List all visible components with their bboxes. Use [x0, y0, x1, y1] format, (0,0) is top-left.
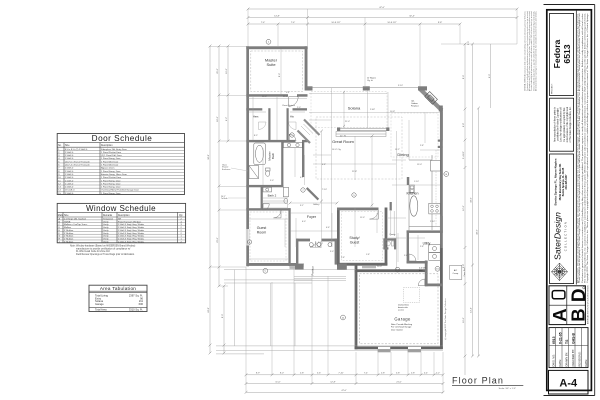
AIBD logo box	[549, 286, 585, 325]
wall utility top	[407, 230, 443, 233]
svg-text:1: 1	[181, 236, 183, 238]
svg-text:For Overhead Garage: For Overhead Garage	[391, 326, 412, 329]
door schedule rows text	[58, 148, 139, 195]
svg-text:Comp.: Comp.	[453, 273, 459, 275]
ac comp pad	[450, 265, 462, 279]
svg-text:10'-8": 10'-8"	[390, 111, 395, 113]
wall hall east	[302, 142, 304, 177]
svg-text:2'-8 Sngl. Dbl. Sashed: 2'-8 Sngl. Dbl. Sashed	[64, 218, 86, 220]
window right wall lower	[440, 216, 442, 231]
front porch lines	[216, 270, 443, 354]
pantry shelves	[391, 211, 394, 236]
svg-text:4'-2": 4'-2"	[300, 177, 304, 179]
svg-text:B: B	[59, 221, 61, 223]
svg-text:Total Area: Total Area	[95, 308, 107, 312]
svg-text:2'-8x8'-0: 2'-8x8'-0	[65, 168, 74, 170]
door tags circles	[247, 39, 448, 320]
svg-text:Bath 2: Bath 2	[268, 193, 277, 197]
svg-text:3'-1": 3'-1"	[300, 205, 304, 207]
sater address rotated text	[554, 158, 569, 205]
extension lines left	[210, 46, 247, 286]
svg-text:2'-8x8'-0: 2'-8x8'-0	[65, 177, 74, 179]
svg-text:A-4: A-4	[559, 378, 578, 390]
great room media niche	[336, 132, 386, 137]
svg-text:4'-6": 4'-6"	[326, 227, 330, 229]
svg-text:9'-0": 9'-0"	[489, 74, 491, 79]
wall closets top	[246, 108, 262, 110]
garage door openings	[378, 347, 421, 350]
wall nook divider	[390, 202, 392, 211]
svg-text:20'-0": 20'-0"	[217, 68, 219, 74]
svg-text:(2) 2'-4 x 8'-0 w/ Transom: (2) 2'-4 x 8'-0 w/ Transom	[65, 164, 90, 167]
svg-text:2'-8": 2'-8"	[341, 257, 345, 259]
svg-text:Area Tabulation: Area Tabulation	[100, 286, 136, 291]
portico columns	[295, 264, 304, 270]
svg-text:Law. Any design modifications: Law. Any design modifications will	[560, 107, 563, 142]
svg-text:6'-0": 6'-0"	[302, 221, 306, 223]
svg-text:2' Mullion: 2' Mullion	[64, 236, 74, 238]
svg-text:5'-8": 5'-8"	[463, 264, 465, 269]
wall solana column west	[308, 86, 313, 90]
svg-text:10'-8 1/2": 10'-8 1/2"	[387, 22, 396, 24]
svg-text:9'-2": 9'-2"	[226, 117, 228, 122]
svg-text:2: 2	[181, 227, 183, 229]
arc bath2 door	[263, 204, 270, 211]
svg-text:No.: No.	[58, 145, 62, 147]
svg-text:2'-8x8'-0: 2'-8x8'-0	[65, 158, 74, 160]
svg-text:2'-8x6'-3 Sngl. Hng. Wndw.: 2'-8x6'-3 Sngl. Hng. Wndw.	[118, 227, 145, 229]
garage door sill right	[408, 350, 422, 353]
note ceiling slope	[367, 78, 376, 82]
svg-text:Pantry: Pantry	[390, 233, 396, 236]
svg-text:8'-6": 8'-6"	[279, 73, 281, 78]
AIBD registered mark	[583, 287, 585, 289]
svg-text:Suite: Suite	[266, 62, 276, 67]
svg-text:2: 2	[181, 233, 183, 235]
svg-text:1 Panel Swng. Door: 1 Panel Swng. Door	[101, 192, 121, 195]
svg-text:2'-10": 2'-10"	[430, 221, 435, 223]
svg-text:8'-5": 8'-5"	[254, 135, 258, 137]
master vanity	[283, 142, 302, 147]
svg-text:Window Schedule: Window Schedule	[86, 204, 156, 213]
ceiling dashed master	[251, 51, 303, 92]
copyright note rotated text	[554, 106, 573, 142]
svg-text:1 Panel Swng. Door: 1 Panel Swng. Door	[101, 170, 121, 173]
wall mbath bottom	[246, 185, 283, 187]
door arcs	[263, 97, 425, 286]
svg-text:7'-4": 7'-4"	[364, 373, 368, 375]
svg-text:Fixed Transom Window: Fixed Transom Window	[118, 220, 141, 223]
svg-text:606: 606	[139, 302, 144, 306]
svg-text:Qty: Qty	[179, 214, 183, 217]
svg-text:All window and door openings t: All window and door openings to receive …	[535, 11, 538, 91]
dimension text right (rotated)	[463, 74, 491, 323]
svg-text:2'-8x8'-0: 2'-8x8'-0	[65, 174, 74, 176]
svg-text:Verify: Verify	[103, 235, 109, 238]
svg-text:2'-8x8'-0: 2'-8x8'-0	[65, 193, 74, 195]
svg-text:1: 1	[181, 239, 183, 241]
svg-text:5'-0": 5'-0"	[270, 180, 274, 182]
extra tick marks interior	[289, 91, 374, 246]
svg-text:Garage: Garage	[394, 317, 411, 322]
svg-text:Mullion x 3 w/Top Trans.: Mullion x 3 w/Top Trans.	[64, 223, 88, 226]
arc study door	[370, 210, 379, 219]
svg-text:DRAWN BY:: DRAWN BY:	[565, 352, 569, 367]
svg-text:Garage: Garage	[95, 302, 104, 306]
wall guest top	[246, 208, 290, 210]
ceiling dashed guest	[250, 212, 286, 261]
svg-text:Foyer: Foyer	[307, 215, 317, 219]
svg-text:Enclosure: Enclosure	[222, 168, 230, 171]
svg-text:20'-0": 20'-0"	[377, 266, 382, 268]
svg-text:Clg. ht.: Clg. ht.	[367, 79, 373, 82]
svg-text:(c) copyright 2005 The Sater D: (c) copyright 2005 The Sater Design Coll…	[444, 299, 447, 340]
svg-text:12'-8": 12'-8"	[330, 381, 336, 383]
sheet number box	[549, 370, 589, 394]
svg-text:44'-0": 44'-0"	[477, 229, 479, 235]
wall foyer front right	[322, 239, 338, 242]
svg-text:32'-4": 32'-4"	[409, 15, 415, 17]
svg-text:2'-8x8'-0: 2'-8x8'-0	[65, 155, 74, 157]
interior dim chains	[248, 49, 440, 269]
svg-text:10'-0": 10'-0"	[226, 68, 228, 74]
niche hatch marks	[298, 120, 320, 144]
door schedule header text	[58, 144, 113, 147]
svg-text:Note: Provide Blocking: Note: Provide Blocking	[391, 323, 413, 326]
svg-text:2'-8x4'-3 Sngl. Hng. Wndw.: 2'-8x4'-3 Sngl. Hng. Wndw.	[118, 233, 145, 235]
master tub	[254, 143, 265, 165]
dimension text top	[261, 7, 443, 24]
svg-text:Field Review Openings w/ T: Field Review Openings w/ Truss Dwgs prio…	[76, 253, 135, 256]
svg-text:3'-0": 3'-0"	[330, 251, 334, 253]
ceiling dashed great room	[316, 117, 402, 179]
svg-text:E: E	[59, 230, 61, 232]
svg-text:6513: 6513	[552, 336, 556, 344]
copyright note box	[550, 98, 574, 151]
svg-text:Gallery: Gallery	[313, 204, 319, 206]
wall guest right	[288, 208, 290, 266]
window schedule note	[70, 245, 135, 256]
portico steps	[294, 276, 346, 280]
svg-text:1'-10": 1'-10"	[414, 181, 419, 183]
area tabulation table frame	[89, 285, 147, 311]
svg-text:be appropriately accepted by t: be appropriately accepted by this	[563, 107, 566, 142]
svg-text:5'-4": 5'-4"	[286, 92, 290, 94]
wall left exterior	[246, 46, 249, 266]
svg-text:16'-0x8'-0: 16'-0x8'-0	[65, 190, 75, 192]
svg-text:Purchaser is granted a limited: Purchaser is granted a limited license t…	[581, 12, 584, 283]
svg-text:6-21-05: 6-21-05	[559, 332, 563, 344]
svg-text:SH: SH	[118, 218, 121, 220]
wall mbath top	[246, 140, 295, 142]
svg-text:His: His	[290, 115, 294, 119]
svg-text:Guest: Guest	[350, 240, 360, 244]
wall bath2 east	[261, 187, 263, 210]
wall foyer jamb right	[335, 239, 337, 265]
margin leader lines	[228, 168, 248, 198]
svg-text:14'-8": 14'-8"	[274, 15, 280, 17]
master wc	[266, 168, 271, 176]
svg-text:noted erasure of the copyright: noted erasure of the copyright seal	[566, 106, 569, 142]
svg-text:2'-8x3'-3 Sngl. Hng. Wndw.: 2'-8x3'-3 Sngl. Hng. Wndw.	[118, 239, 145, 241]
arc utility door	[409, 254, 416, 261]
svg-text:Tempered: Tempered	[103, 217, 114, 220]
svg-text:1 Panel Swng. Door: 1 Panel Swng. Door	[101, 157, 121, 160]
svg-text:Verify: Verify	[103, 240, 109, 243]
fireplace corner chamfer	[418, 86, 443, 111]
svg-text:16'-0" Clg.: 16'-0" Clg.	[332, 149, 342, 151]
info table rotated labels and values	[552, 332, 589, 366]
svg-text:42" TV: 42" TV	[340, 136, 347, 138]
svg-text:(2) 2'-0 x 8'-0 w/ Transom: (2) 2'-0 x 8'-0 w/ Transom	[65, 160, 90, 163]
svg-text:2'-8x6'-3 Sngl. Hng. Wndw.: 2'-8x6'-3 Sngl. Hng. Wndw.	[118, 236, 145, 238]
dimension ticks top	[247, 8, 519, 26]
sater design box	[550, 154, 574, 284]
dimension lines top	[248, 9, 517, 24]
svg-text:Portico: Portico	[311, 266, 315, 276]
svg-text:24'-8": 24'-8"	[208, 307, 210, 313]
dimension lines bottom	[246, 375, 443, 393]
svg-text:AMERICAN INSTITUTE OF BUILDING: AMERICAN INSTITUTE OF BUILDING DESIGN	[587, 285, 590, 324]
svg-text:5'-6": 5'-6"	[404, 255, 408, 257]
note attic access	[398, 305, 409, 312]
walls interior	[246, 94, 443, 266]
svg-text:1: 1	[268, 42, 270, 44]
svg-text:Dining: Dining	[397, 152, 408, 157]
svg-text:DATE:: DATE:	[584, 359, 588, 367]
svg-text:SaterDesign: SaterDesign	[553, 212, 563, 260]
svg-text:2: 2	[181, 218, 183, 220]
window guest front sill	[290, 266, 304, 269]
dimension ticks right	[464, 43, 480, 358]
svg-text:2'-8": 2'-8"	[381, 373, 385, 375]
dimension text left (rotated)	[208, 41, 470, 319]
svg-text:2'-8": 2'-8"	[420, 246, 424, 248]
svg-text:TB/SB: TB/SB	[64, 221, 71, 223]
wall utility bottom	[407, 261, 428, 264]
svg-text:Fireplace: Fireplace	[411, 104, 419, 107]
svg-text:Exterior Swng. Glass Door: Exterior Swng. Glass Door	[101, 173, 127, 176]
dense notes block top right	[524, 11, 538, 91]
svg-text:3310 Sq. Ft.: 3310 Sq. Ft.	[129, 308, 143, 312]
interior leader lines and extra dims	[248, 92, 440, 272]
svg-text:2'-8x8'-0: 2'-8x8'-0	[65, 187, 74, 189]
svg-text:2: 2	[181, 230, 183, 232]
svg-text:2'-6x8'-0: 2'-6x8'-0	[65, 180, 74, 182]
door schedule table frame	[57, 134, 184, 195]
svg-text:Floor Plan: Floor Plan	[452, 376, 504, 386]
window schedule rows text	[59, 217, 183, 243]
svg-text:1 Panel Pocket Door: 1 Panel Pocket Door	[101, 176, 121, 179]
svg-text:2'-8": 2'-8"	[420, 145, 424, 147]
ceiling dashed solana	[311, 92, 387, 128]
svg-text:Note: Window hardware (Based: Note: Window hardware (Based on ANDERSEN…	[70, 245, 135, 248]
info table strip lines	[549, 328, 588, 368]
dimension text bottom	[256, 373, 440, 393]
wall garage left	[355, 265, 358, 349]
svg-text:10'-8 1/2": 10'-8 1/2"	[331, 22, 340, 24]
svg-text:Attic: Attic	[419, 269, 423, 272]
svg-text:5'-8": 5'-8"	[396, 373, 400, 375]
wall foyer jamb left	[296, 239, 298, 265]
svg-text:13'-0": 13'-0"	[417, 164, 422, 166]
svg-text:D: D	[59, 227, 61, 229]
pool bath fixtures	[387, 241, 394, 246]
svg-text:9'-8": 9'-8"	[438, 22, 443, 24]
svg-text:A/C: A/C	[454, 269, 458, 272]
fireplace box	[425, 92, 438, 105]
svg-text:Copyright 2005 The Sater Desig: Copyright 2005 The Sater Design Collecti…	[586, 12, 589, 283]
svg-text:10'-6": 10'-6"	[463, 317, 465, 323]
note garage blocking	[391, 323, 413, 331]
svg-text:Verify: Verify	[103, 232, 109, 235]
svg-text:2'-8x8'-0: 2'-8x8'-0	[65, 171, 74, 173]
sater logo diamond	[552, 263, 568, 281]
svg-text:47'-0": 47'-0"	[341, 390, 347, 392]
svg-text:Verify: Verify	[103, 238, 109, 241]
wall foyer front left	[296, 239, 310, 242]
window schedule row lines	[57, 220, 185, 240]
svg-text:Kitchen: Kitchen	[407, 192, 419, 196]
svg-text:1'-8": 1'-8"	[366, 254, 370, 256]
svg-text:28'-8": 28'-8"	[262, 96, 267, 98]
wall master suite right	[305, 46, 308, 90]
svg-text:F: F	[59, 233, 61, 235]
svg-text:Door Schedule: Door Schedule	[92, 134, 153, 143]
window guest left wall	[246, 229, 250, 246]
wall utility west	[407, 230, 409, 263]
svg-text:GHS-B: GHS-B	[572, 333, 576, 344]
svg-text:Bypass Doors: Bypass Doors	[101, 167, 116, 170]
svg-text:6'-8": 6'-8"	[322, 164, 326, 166]
wall right exterior upper	[440, 108, 443, 248]
svg-text:7'-10": 7'-10"	[322, 189, 327, 191]
svg-text:B: B	[446, 174, 448, 176]
svg-text:1 Panel Dbl. Door: 1 Panel Dbl. Door	[101, 160, 119, 163]
solana slider end blocks	[337, 127, 340, 131]
kitchen fridge	[431, 161, 441, 172]
svg-text:4'-4": 4'-4"	[424, 373, 428, 375]
svg-text:11'-6": 11'-6"	[275, 381, 280, 383]
svg-text:Verify: Verify	[103, 220, 109, 223]
svg-text:7'-10": 7'-10"	[338, 373, 344, 375]
svg-text:2' Mullion: 2' Mullion	[64, 239, 74, 241]
bath2 fixtures	[263, 187, 289, 203]
wall study front	[337, 263, 387, 266]
svg-text:9'-8": 9'-8"	[463, 123, 465, 128]
window schedule table frame	[57, 203, 185, 242]
svg-text:Solana: Solana	[348, 106, 361, 111]
svg-text:8'-0": 8'-0"	[222, 314, 224, 319]
svg-text:Overhead Metal Panelled Garage: Overhead Metal Panelled Garage Door	[101, 189, 139, 192]
solana header thin line	[308, 87, 421, 89]
svg-text:3' Mullion: 3' Mullion	[64, 230, 74, 232]
PLAN	[208, 7, 518, 394]
wall study left	[337, 208, 340, 266]
svg-text:The Sater Design Collection, I: The Sater Design Collection, Inc. assume…	[583, 12, 586, 283]
kitchen counters	[409, 155, 440, 230]
wall study top	[337, 208, 379, 211]
AIBD divider cross	[566, 286, 568, 325]
AIBD letter I (outline bar)	[552, 291, 565, 299]
svg-text:Bonita Springs FL, Myers-Na: Bonita Springs FL, Myers-Naples	[554, 158, 558, 205]
wall study chimney	[337, 264, 347, 270]
svg-text:Conc. Pad: Conc. Pad	[464, 268, 466, 277]
laundry washer dryer	[429, 245, 441, 261]
svg-text:Scale: 1/4" = 1'-0": Scale: 1/4" = 1'-0"	[499, 388, 517, 390]
SCHEDULES	[57, 134, 185, 312]
svg-text:All floor plans, elevations an: All floor plans, elevations and details …	[576, 12, 579, 283]
svg-text:C: C	[59, 224, 61, 226]
svg-text:J: J	[59, 241, 60, 243]
master shower	[249, 166, 259, 179]
svg-text:7'-4": 7'-4"	[261, 22, 266, 24]
room labels and annotations	[221, 11, 538, 390]
svg-text:34'-0": 34'-0"	[471, 197, 473, 203]
svg-text:5: 5	[353, 195, 355, 197]
svg-text:21'-4": 21'-4"	[345, 121, 350, 123]
svg-text:Door Opener: Door Opener	[391, 328, 403, 331]
svg-text:8'-9": 8'-9"	[256, 373, 260, 375]
svg-text:2'-2": 2'-2"	[436, 373, 440, 375]
kitchen upper cabinets dashed	[435, 150, 437, 226]
wall foyer niche diagonal	[306, 187, 319, 200]
svg-text:12'-0": 12'-0"	[463, 205, 465, 211]
svg-text:1 Panel Pocket Door: 1 Panel Pocket Door	[101, 151, 121, 154]
note attic stair	[419, 268, 426, 272]
wall garage bottom	[355, 346, 443, 349]
svg-text:Description: Description	[118, 214, 130, 217]
svg-text:2: 2	[291, 135, 293, 137]
area tabulation rows	[95, 293, 144, 311]
svg-text:C: C	[265, 271, 267, 273]
svg-text:7'-4": 7'-4"	[291, 22, 296, 24]
svg-text:8'-9": 8'-9"	[463, 75, 465, 80]
svg-text:2'-8x8'-0: 2'-8x8'-0	[65, 152, 74, 154]
dining buffet niche walls	[438, 140, 443, 142]
svg-text:239-495-0457: 239-495-0457	[565, 174, 568, 190]
svg-text:FL Wind Load Code for Zone: FL Wind Load Code for Zone 110	[76, 250, 111, 253]
svg-text:Verify: Verify	[103, 229, 109, 232]
svg-text:8'-0": 8'-0"	[280, 373, 284, 375]
extension lines bottom	[246, 267, 443, 392]
svg-text:34'-8": 34'-8"	[208, 154, 210, 160]
svg-text:Mullion: Mullion	[64, 227, 72, 229]
floor plan title underline	[452, 385, 523, 387]
window study front sill	[362, 266, 376, 268]
svg-text:Utility: Utility	[423, 241, 431, 245]
svg-text:(2) 1 Panel Dbl. Door: (2) 1 Panel Dbl. Door	[101, 154, 122, 157]
svg-text:11'-0": 11'-0"	[360, 217, 365, 219]
dimension ticks left	[209, 45, 230, 355]
svg-text:18'-6": 18'-6"	[217, 116, 219, 122]
dimension lines left	[210, 46, 228, 353]
wall master suite top	[246, 46, 307, 49]
walls exterior	[246, 46, 442, 349]
svg-text:manufacturer to provide cert: manufacturer to provide certification of…	[76, 247, 131, 250]
note outdoor fireplace	[411, 100, 419, 108]
svg-text:7: 7	[302, 190, 304, 192]
wall closet divider his	[287, 108, 289, 142]
garage door sill left	[378, 350, 391, 353]
svg-text:23'-0": 23'-0"	[217, 237, 219, 243]
svg-text:Remarks: Remarks	[103, 214, 113, 217]
svg-text:B: B	[567, 308, 588, 321]
pool bath room	[383, 238, 396, 249]
wall mbath east	[281, 142, 283, 187]
svg-text:6513: 6513	[562, 44, 572, 63]
svg-text:DWG. NO:: DWG. NO:	[552, 354, 556, 367]
